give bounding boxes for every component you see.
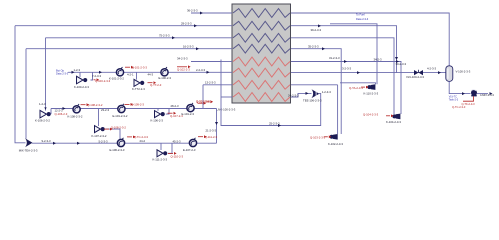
svg-text:K-110-2-3-3: K-110-2-3-3 bbox=[364, 91, 379, 95]
energy arrow Q-TC bbox=[127, 136, 136, 139]
svg-text:K-104-2-3-3: K-104-2-3-3 bbox=[386, 120, 401, 124]
svg-text:Q-TC-2-3-3: Q-TC-2-3-3 bbox=[452, 105, 466, 109]
wire stream 13 horizontal y=84.8 bbox=[203, 84, 232, 86]
wire K-102a feed y=82.8 bbox=[340, 83, 376, 85]
svg-text:23-2-3: 23-2-3 bbox=[101, 108, 110, 112]
svg-text:E-106-2-3-3: E-106-2-3-3 bbox=[110, 148, 125, 152]
heat exchanger LNG-100 body bbox=[232, 4, 291, 103]
expander K-107 bbox=[95, 126, 105, 133]
energy arrow Q-110 bbox=[168, 152, 177, 155]
svg-text:K-100-2-3-3: K-100-2-3-3 bbox=[74, 85, 89, 89]
wire vessel bottom outlet bbox=[449, 81, 470, 93]
wire stream 36 stub into exchanger row1 bbox=[191, 12, 232, 14]
energy arrow Q-101b bbox=[198, 102, 207, 105]
wire K-106a outlet bbox=[50, 109, 52, 115]
tee TEE-106 bbox=[312, 89, 320, 98]
expander K-111 bbox=[157, 150, 167, 157]
svg-text:E-107-2-3: E-107-2-3 bbox=[183, 148, 196, 152]
wire stream 39 y=25.7 down x=396.5 merges into valve feed bbox=[291, 26, 397, 73]
wire K-106b outlet bbox=[166, 109, 169, 115]
wire stub hot row1 bbox=[221, 61, 232, 63]
energy arrow Q-103 bbox=[324, 135, 332, 138]
svg-text:Data 2-3-3: Data 2-3-3 bbox=[356, 17, 369, 21]
wire stream 35 y=48.7 down x=341.2 to K-102b bbox=[291, 49, 341, 134]
expander K-111 drop bbox=[160, 143, 162, 150]
energy arrow Q-111 bbox=[198, 135, 207, 138]
svg-text:E-101-2-3-2: E-101-2-3-2 bbox=[113, 114, 128, 118]
svg-text:V-100-2-3-3: V-100-2-3-3 bbox=[456, 69, 471, 73]
compressor E-100 bbox=[161, 67, 168, 76]
svg-text:Q-TA-2-3-3: Q-TA-2-3-3 bbox=[349, 86, 363, 90]
wire stream 24 into tee bbox=[291, 93, 312, 97]
cold pass zigzag 4 bbox=[233, 44, 290, 53]
svg-text:Q-103-2-3-3: Q-103-2-3-3 bbox=[310, 135, 326, 139]
svg-text:Q-108-2-3-2: Q-108-2-3-2 bbox=[111, 125, 127, 129]
svg-text:24-2-3-3: 24-2-3-3 bbox=[288, 93, 299, 97]
energy arrow Q-109 bbox=[125, 103, 134, 106]
svg-text:35-2-3-3: 35-2-3-3 bbox=[308, 44, 319, 48]
svg-text:To Fuel: To Fuel bbox=[356, 13, 365, 17]
svg-text:3-2-3-3: 3-2-3-3 bbox=[342, 66, 351, 70]
svg-text:13-2-3-3: 13-2-3-3 bbox=[205, 80, 216, 84]
svg-text:4-2-1: 4-2-1 bbox=[127, 73, 134, 77]
wire K-100 outlet bbox=[91, 72, 93, 80]
svg-text:MIX-TEA-2-3-3: MIX-TEA-2-3-3 bbox=[19, 148, 38, 152]
svg-text:K-TT2-2-3: K-TT2-2-3 bbox=[132, 87, 145, 91]
expander K-TT2 bbox=[134, 79, 144, 86]
wire stream 3 y=72.6 to vessel bbox=[291, 72, 446, 74]
svg-text:30-2-3-3: 30-2-3-3 bbox=[396, 62, 407, 66]
wire stream y=37.8 down x=394 to K-104 bbox=[291, 38, 394, 114]
cold pass zigzag 3 bbox=[233, 33, 290, 42]
energy arrow Q-TT bbox=[148, 81, 157, 84]
wire K-102b outlet riser x=337.6 bbox=[337, 85, 339, 134]
separator V-100 vessel bbox=[446, 66, 453, 82]
valve VLV-100 bbox=[414, 70, 423, 75]
compressor E-106 bbox=[117, 138, 124, 147]
expander K-100 bbox=[77, 76, 88, 84]
expander K-100 drop wire bbox=[79, 72, 81, 77]
svg-text:K-106-2-3: K-106-2-3 bbox=[151, 118, 164, 122]
energy arrow Q-108 bbox=[81, 103, 90, 106]
wire stream 16 horizontal y=48.7 bbox=[26, 48, 232, 50]
svg-text:31-2-3-3: 31-2-3-3 bbox=[329, 56, 340, 60]
compressor K-101 bbox=[116, 67, 123, 76]
compressor E-107 bbox=[189, 138, 196, 147]
energy arrow Q-101 bbox=[125, 66, 134, 69]
energy arrow Q-107 bbox=[168, 112, 177, 115]
wire stream 34 stub bbox=[191, 61, 221, 63]
svg-text:Tank-2-3: Tank-2-3 bbox=[449, 98, 459, 101]
svg-text:16-2-3-3: 16-2-3-3 bbox=[183, 44, 194, 48]
svg-text:TEE-106-2-3-3: TEE-106-2-3-3 bbox=[303, 99, 322, 103]
svg-text:21-2-3-3: 21-2-3-3 bbox=[206, 129, 217, 133]
energy label Q-100 bbox=[94, 78, 100, 81]
hot pass zigzag 4 bbox=[233, 93, 290, 102]
svg-text:K-102-2-3-3: K-102-2-3-3 bbox=[328, 142, 343, 146]
wire stream 29 horizontal y=25.7 bbox=[15, 25, 232, 27]
svg-text:34-2-3-3: 34-2-3-3 bbox=[177, 56, 188, 60]
svg-text:Q-101-2-3-3: Q-101-2-3-3 bbox=[132, 65, 148, 69]
energy arrow Q-108b bbox=[104, 128, 113, 131]
wire stream 16 vertical x=26 bbox=[25, 49, 27, 139]
compressor E-101a bbox=[118, 104, 125, 113]
compressor E-101b bbox=[187, 103, 194, 112]
wire stream 29 vertical x=15 bbox=[15, 26, 26, 143]
wire stub hot row4 bbox=[221, 96, 232, 98]
wire K-111 outlet bbox=[168, 143, 172, 153]
energy arrow Q-104 bbox=[386, 114, 394, 117]
svg-text:Q-TT-2-3: Q-TT-2-3 bbox=[150, 83, 162, 87]
wire stream 31 y=61.5 down x=401 to K-104 bbox=[291, 62, 401, 115]
svg-text:44-3: 44-3 bbox=[148, 72, 154, 76]
svg-text:Q-109-2-3: Q-109-2-3 bbox=[131, 103, 144, 107]
svg-text:36-2-3-3: 36-2-3-3 bbox=[187, 9, 198, 13]
svg-text:39-2-3-3: 39-2-3-3 bbox=[311, 28, 322, 32]
svg-text:Q-102-2-3: Q-102-2-3 bbox=[177, 68, 190, 72]
svg-text:Q-110-2-3: Q-110-2-3 bbox=[171, 155, 184, 159]
svg-text:1-2-3: 1-2-3 bbox=[74, 68, 81, 72]
svg-text:75-2-3-3: 75-2-3-3 bbox=[159, 33, 170, 37]
wire stream 13 vertical x=203 bbox=[202, 85, 204, 109]
svg-text:29-2-3-3: 29-2-3-3 bbox=[181, 21, 192, 25]
svg-text:K-101-2-3-2: K-101-2-3-2 bbox=[109, 77, 124, 81]
svg-text:LNG-100-2-3-3: LNG-100-2-3-3 bbox=[217, 107, 236, 111]
svg-text:VLV-100-2-3-3: VLV-100-2-3-3 bbox=[406, 75, 424, 79]
svg-text:K-107-2-3-2: K-107-2-3-2 bbox=[92, 134, 107, 138]
svg-text:5-2-3-3: 5-2-3-3 bbox=[99, 139, 108, 143]
expander K-106b bbox=[155, 111, 165, 118]
svg-text:28-2-3: 28-2-3 bbox=[171, 104, 180, 108]
wire K-107 outlet bbox=[106, 129, 121, 139]
wire stream 75 horizontal y=37.8 bbox=[46, 37, 233, 39]
svg-text:K-106-2-3-2: K-106-2-3-2 bbox=[35, 119, 50, 123]
svg-text:Q-101-2-3-3: Q-101-2-3-3 bbox=[196, 99, 212, 103]
svg-text:Q-104-2-3-3: Q-104-2-3-3 bbox=[363, 113, 379, 117]
wire stream 21 vertical x=216.5 bbox=[216, 109, 218, 144]
expander K-106a bbox=[40, 110, 51, 118]
wire row108 main bbox=[51, 108, 217, 110]
energy wire red below pump bbox=[463, 96, 474, 101]
svg-text:45-2-3: 45-2-3 bbox=[173, 139, 182, 143]
wire stream 75 vertical x=45.5 bbox=[45, 38, 47, 111]
wire hot row3 out y=84.8 bbox=[291, 84, 338, 86]
svg-text:24-2: 24-2 bbox=[140, 139, 146, 143]
wire K-110a inlet from y=23.8 down x=377 bbox=[330, 24, 377, 85]
energy arrow Q-102 bbox=[177, 65, 191, 68]
svg-text:1-2-3-3: 1-2-3-3 bbox=[322, 90, 331, 94]
svg-text:1-2-3: 1-2-3 bbox=[39, 102, 46, 106]
svg-text:7-2-3-3: 7-2-3-3 bbox=[92, 74, 101, 78]
expander K-104 bbox=[392, 114, 400, 120]
hot pass zigzag 2 bbox=[233, 68, 290, 77]
expander K-110a bbox=[367, 84, 375, 90]
pump P-100 bbox=[471, 90, 477, 97]
hot pass zigzag 3 bbox=[233, 80, 290, 89]
energy arrow Q-TA bbox=[361, 86, 369, 89]
wire bottom row main bbox=[32, 142, 217, 144]
wire branch x=98.5 down bbox=[98, 109, 100, 127]
expander K-TT drop wire bbox=[136, 72, 138, 79]
expander K-106b drop bbox=[157, 109, 159, 111]
svg-text:Q-106-2-3: Q-106-2-3 bbox=[55, 112, 68, 116]
wire hot distribution vertical x=221 with U-bend under exchanger bbox=[221, 60, 321, 126]
expander K-102b bbox=[330, 134, 338, 140]
svg-text:K-108-2-3-2: K-108-2-3-2 bbox=[68, 115, 83, 119]
wire row72 main bbox=[68, 71, 232, 73]
svg-text:Data 2-3-3: Data 2-3-3 bbox=[56, 72, 69, 76]
svg-text:4-MIX-2-3-3: 4-MIX-2-3-3 bbox=[480, 93, 494, 97]
svg-text:2-2-3-3: 2-2-3-3 bbox=[196, 68, 205, 72]
svg-text:E-100-2-3: E-100-2-3 bbox=[159, 76, 172, 80]
cold pass zigzag 2 bbox=[233, 21, 290, 30]
mixer MIX-TEA bbox=[25, 138, 33, 147]
hot pass zigzag 1 bbox=[233, 57, 290, 66]
svg-text:9-2-3-3: 9-2-3-3 bbox=[42, 139, 51, 143]
compressor K-108 bbox=[73, 104, 80, 113]
svg-text:Q-108-2-3-2: Q-108-2-3-2 bbox=[87, 103, 103, 107]
wire stream to-fuel y=13 to vessel top bbox=[291, 13, 449, 66]
svg-text:34-2-3: 34-2-3 bbox=[374, 58, 383, 62]
wire pump outlet bbox=[477, 93, 488, 95]
cold pass zigzag 1 bbox=[233, 9, 290, 18]
svg-text:Q-111-2-3: Q-111-2-3 bbox=[205, 135, 218, 139]
svg-text:4-2-3-3: 4-2-3-3 bbox=[427, 67, 436, 71]
svg-text:E-101-2-3: E-101-2-3 bbox=[182, 112, 195, 116]
svg-text:K-111-2-3-3: K-111-2-3-3 bbox=[153, 158, 168, 162]
